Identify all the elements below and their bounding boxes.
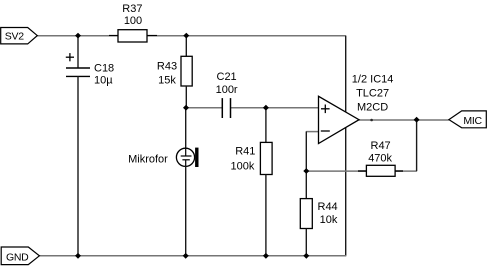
wire V+ power pin of op-amp [345,36,347,114]
junction dot [263,105,269,111]
junction dot [75,253,81,259]
wire [78,35,109,37]
svg-text:M2CD: M2CD [357,101,388,113]
ground tag GND [1,247,39,265]
svg-text:100r: 100r [216,84,238,96]
resistor R41 [231,108,273,256]
svg-text:470k: 470k [368,153,392,165]
svg-text:R41: R41 [235,146,255,158]
resistor R37 [109,3,157,42]
junction dot [303,168,309,174]
wire [186,107,222,109]
wire [395,170,417,172]
wire [185,166,187,256]
microphone Mikrofor [128,108,198,167]
wire op-amp output [359,119,449,121]
svg-text:TLC27: TLC27 [356,88,389,100]
output tag MIC [449,111,486,128]
svg-text:100k: 100k [231,160,255,172]
svg-text:10k: 10k [320,214,338,226]
resistor R43 [157,36,192,108]
wire [305,131,307,171]
output pin endpoint dot [370,119,373,122]
wire V- power pin of op-amp [345,127,347,256]
svg-text:100: 100 [124,15,142,27]
svg-text:10µ: 10µ [94,74,113,86]
junction dot [183,105,189,111]
supply tag SV2 [1,28,38,44]
wire inverting input [306,131,318,133]
svg-text:C18: C18 [94,62,114,74]
op-amp IC14 [319,74,394,144]
wire [231,107,319,109]
capacitor C18 [66,36,114,87]
junction dot [75,33,81,39]
wire ground rail [39,255,346,257]
wire [416,120,418,171]
resistor R44 [300,171,338,256]
junction dot [303,253,309,259]
capacitor C21 [216,71,238,118]
svg-text:SV2: SV2 [5,31,24,43]
svg-text:R47: R47 [371,140,391,152]
svg-text:C21: C21 [217,71,237,83]
wire [77,76,79,255]
junction dot [414,117,420,123]
svg-text:MIC: MIC [463,115,482,127]
svg-text:1/2 IC14: 1/2 IC14 [352,74,394,86]
wire [37,35,78,37]
svg-text:R44: R44 [318,201,338,213]
wire feedback node [306,170,366,172]
wire [157,35,186,37]
junction dot [183,33,189,39]
svg-text:15k: 15k [158,75,176,87]
svg-text:R43: R43 [157,61,177,73]
junction dot [263,253,269,259]
svg-text:GND: GND [6,251,29,263]
wire [186,35,346,37]
svg-text:R37: R37 [122,3,142,15]
resistor R47 [358,140,403,176]
svg-text:Mikrofor: Mikrofor [128,153,168,165]
junction dot [183,253,189,259]
